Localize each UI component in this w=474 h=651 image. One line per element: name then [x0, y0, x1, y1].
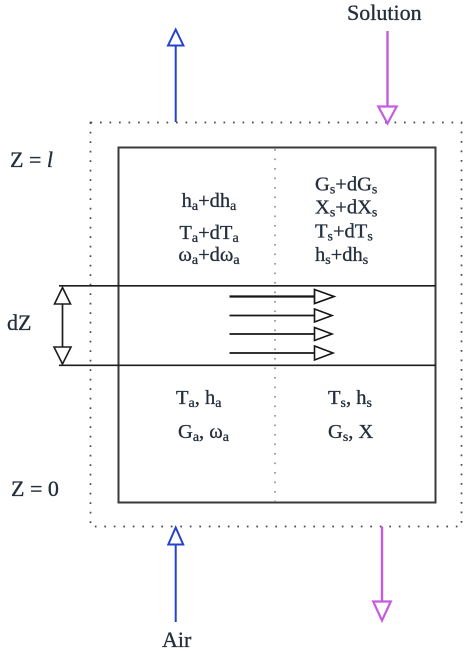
svg-text:Z = l: Z = l	[10, 147, 53, 172]
dZ arrow upper head	[55, 288, 71, 305]
solution inlet arrow shaft (top, magenta)	[386, 31, 388, 106]
differential element top boundary line	[59, 285, 436, 287]
air inlet arrow shaft	[175, 545, 177, 622]
svg-text:Gs+dGs: Gs+dGs	[315, 174, 377, 198]
dZ arrow lower head	[54, 347, 71, 364]
svg-text:ωa+dωa: ωa+dωa	[178, 244, 240, 268]
solution inlet arrowhead	[378, 107, 396, 124]
transfer arrow 3 shaft	[230, 333, 315, 335]
solution outlet arrow shaft (bottom, magenta)	[381, 527, 383, 602]
air/solution interface (center dotted line)	[274, 149, 276, 502]
svg-text:Ts, hs: Ts, hs	[328, 387, 372, 411]
svg-text:Gs, X: Gs, X	[328, 421, 374, 445]
svg-text:hs+dhs: hs+dhs	[315, 244, 368, 268]
svg-text:Ta, ha: Ta, ha	[176, 387, 222, 411]
svg-text:Z = 0: Z = 0	[11, 476, 59, 501]
svg-text:Ga, ωa: Ga, ωa	[178, 421, 230, 445]
transfer arrow 2 head	[315, 309, 333, 322]
control volume boundary (dotted rectangle)	[91, 123, 462, 527]
svg-text:Xs+dXs: Xs+dXs	[315, 197, 377, 221]
transfer arrow 1 head	[315, 290, 335, 304]
transfer arrow 4 head	[315, 346, 334, 360]
svg-text:Ts+dTs: Ts+dTs	[315, 221, 373, 245]
svg-text:Ta+dTa: Ta+dTa	[179, 222, 239, 246]
svg-text:ha+dha: ha+dha	[182, 190, 238, 214]
svg-text:Air: Air	[162, 627, 192, 651]
transfer arrow 1 shaft	[230, 295, 315, 297]
packing bed (inner solid rectangle)	[119, 148, 436, 503]
solution outlet arrowhead	[373, 602, 391, 621]
dZ double arrow shaft	[62, 303, 64, 348]
differential element bottom boundary line	[59, 364, 436, 366]
air outlet arrow shaft (top, blue)	[175, 45, 177, 122]
transfer arrow 3 head	[315, 328, 333, 341]
svg-text:dZ: dZ	[7, 310, 31, 335]
svg-text:Solution: Solution	[347, 0, 422, 25]
transfer arrow 4 shaft	[230, 352, 315, 354]
air inlet arrowhead (bottom, blue)	[168, 528, 183, 545]
transfer arrow 2 shaft	[230, 315, 315, 317]
air outlet arrowhead	[168, 30, 183, 46]
